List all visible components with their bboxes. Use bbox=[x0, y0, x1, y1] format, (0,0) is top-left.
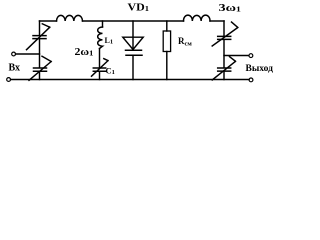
svg-text:VD1: VD1 bbox=[128, 3, 150, 14]
output terminal (lower) bbox=[249, 78, 253, 82]
resistor Rсм body bbox=[163, 31, 170, 52]
trimmer arrow (lower right capacitor) bbox=[212, 57, 235, 80]
wire: output tap bbox=[224, 55, 249, 57]
wire: bottom bus bbox=[11, 79, 249, 81]
wire: top bus right segment bbox=[210, 20, 224, 22]
inductor (left coil, 2ω1 tank) bbox=[57, 15, 83, 21]
trimmer capacitor C1 plates bbox=[93, 68, 105, 71]
trimmer capacitor (output divider, upper) bbox=[218, 36, 231, 39]
svg-text:L1: L1 bbox=[105, 36, 114, 46]
svg-text:Выход: Выход bbox=[246, 64, 274, 74]
wire: VD1 to bottom bus bbox=[132, 55, 134, 79]
trimmer arrow (lower left capacitor) bbox=[29, 56, 51, 80]
trimmer arrow (capacitor C1) bbox=[92, 59, 109, 77]
wire: top bus middle segment bbox=[83, 20, 184, 22]
wire: top bus left segment bbox=[40, 20, 57, 22]
varactor diode VD1 cathode bar bbox=[126, 49, 142, 51]
wire: left branch vertical bbox=[39, 21, 41, 80]
input terminal (lower) bbox=[7, 78, 11, 82]
resistor Rсм lead (top) bbox=[166, 21, 168, 31]
svg-text:Rсм: Rсм bbox=[178, 36, 192, 48]
wire: C1 to bottom bus bbox=[99, 71, 101, 79]
varactor diode VD1 capacitor bar bbox=[126, 54, 142, 56]
inductor (right coil, 3ω1 tank) bbox=[183, 15, 210, 21]
input terminal (upper) bbox=[12, 52, 16, 56]
output terminal bbox=[249, 54, 253, 58]
wire: input tap bbox=[16, 53, 40, 55]
trimmer capacitor (input divider, upper) bbox=[33, 36, 46, 39]
varactor diode VD1 lead (anode) bbox=[132, 21, 134, 50]
svg-text:C1: C1 bbox=[106, 66, 115, 77]
varactor diode VD1 triangle bbox=[123, 37, 143, 49]
trimmer arrow (upper right capacitor) bbox=[212, 22, 238, 46]
wire: right branch vertical bbox=[223, 21, 225, 80]
wire: L1 to C1 bbox=[99, 49, 101, 68]
wire: Rсм to bottom bus bbox=[166, 52, 168, 80]
svg-text:2ω1: 2ω1 bbox=[75, 47, 94, 58]
inductor L1 lead bbox=[102, 21, 104, 27]
inductor L1 bbox=[98, 27, 103, 49]
trimmer arrow (upper left capacitor) bbox=[27, 24, 50, 50]
svg-text:Вх: Вх bbox=[9, 63, 21, 74]
trimmer capacitor (output divider, lower) bbox=[218, 68, 231, 71]
trimmer capacitor (input divider, lower) bbox=[34, 68, 47, 71]
svg-text:3ω1: 3ω1 bbox=[219, 3, 242, 14]
